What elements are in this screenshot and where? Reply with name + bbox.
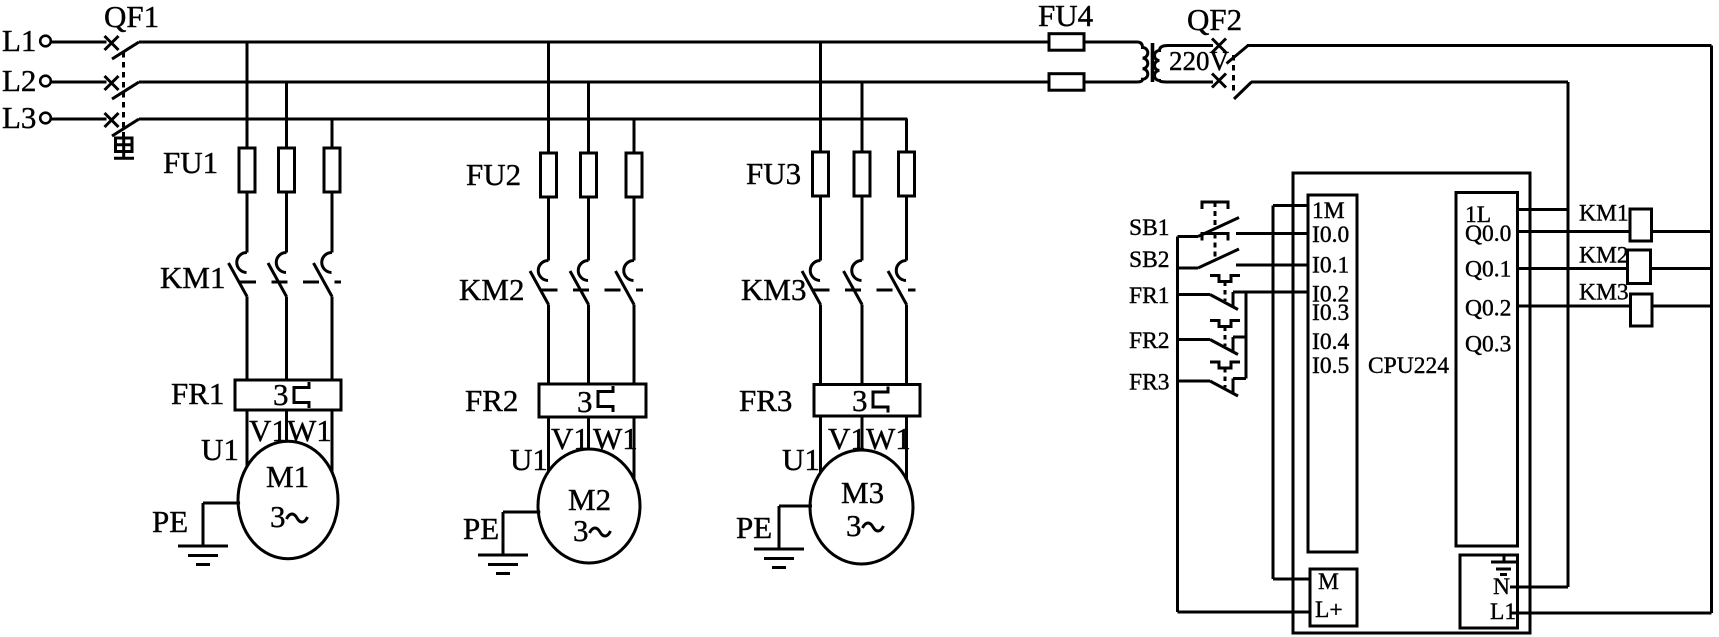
coil KM1 (1630, 209, 1652, 241)
wire FR1 pole 2 to motor (285, 410, 288, 443)
contactor KM2 pole 2 arc (578, 260, 588, 280)
svg-text:Q0.3: Q0.3 (1465, 332, 1511, 358)
wire KM3 pole 1 to FR3 (819, 305, 822, 385)
svg-text:PE: PE (463, 511, 499, 546)
wire neutral to 1568 (1251, 81, 1568, 84)
contactor KM3 pole 1 blade (802, 271, 821, 305)
contactor KM3 pole 3 blade (888, 271, 907, 305)
ground motor 1 (178, 545, 228, 548)
wire Q0.0 to KM1 coil (1518, 230, 1712, 233)
svg-text:M2: M2 (568, 482, 611, 517)
QF1 operator stem (122, 152, 125, 158)
thermal contact FR2 riser (1232, 337, 1235, 353)
wire phase top to right edge (1247, 44, 1712, 47)
svg-text:PE: PE (736, 510, 772, 545)
contactor KM3 pole 2 arc (852, 260, 862, 280)
thermal contact FR2 blade (1210, 340, 1238, 355)
svg-text:FR1: FR1 (1129, 283, 1170, 309)
svg-text:3: 3 (577, 384, 593, 419)
thermal contact FR2 stem dashed (1224, 327, 1227, 347)
wire L1 to QF1 (51, 41, 107, 44)
svg-text:M1: M1 (266, 459, 309, 494)
thermal contact FR1 left lead (1178, 293, 1211, 296)
thermal contact FR3 heater symbol (1210, 362, 1240, 368)
wire N to neutral (1510, 586, 1568, 589)
svg-text:U1: U1 (782, 442, 820, 477)
fuse FU4 lower (1049, 74, 1084, 91)
svg-text:KM2: KM2 (1579, 243, 1629, 269)
svg-text:FU3: FU3 (746, 156, 801, 191)
fuse FU2 pole 2 (581, 153, 597, 197)
svg-text:3: 3 (270, 499, 286, 534)
contactor KM2 linkage dashes (542, 289, 644, 292)
svg-text:Q0.0: Q0.0 (1465, 221, 1511, 247)
QF1 pole 3 X mark (105, 113, 119, 127)
bus L2 wire (139, 81, 1137, 84)
svg-text:CPU224: CPU224 (1368, 353, 1449, 379)
contactor KM2 pole 1 arc (538, 260, 548, 280)
wire FR2 jog (1233, 336, 1246, 339)
fuse FU2 pole 1 (541, 153, 557, 197)
wire SB2 to I0.1 (1236, 264, 1308, 267)
contactor KM1 pole 1 blade (229, 263, 248, 297)
PLC output column (1456, 193, 1518, 547)
thermal contact FR1 blade (1210, 295, 1238, 310)
wire Q0.1 to KM2 coil (1518, 267, 1712, 270)
wire 1M to M vertical (1272, 206, 1275, 580)
thermal contact FR2 left lead (1178, 338, 1211, 341)
thermal contact FR1 heater symbol (1210, 276, 1240, 282)
wire branch1 phase2 drop (285, 82, 288, 253)
contactor KM3 pole 3 arc (896, 260, 906, 280)
contactor KM1 linkage dashes (240, 281, 341, 284)
wire L1 to phase (1510, 612, 1712, 615)
thermal contact FR3 stem dashed (1224, 368, 1227, 388)
QF2 upper pole blade (1227, 46, 1249, 64)
wire KM2 pole 2 to FR2 (587, 305, 590, 385)
wire branch2 phase1 drop (547, 42, 550, 261)
wire branch1 phase3 drop (331, 119, 334, 253)
pushbutton SB1 left lead (1178, 235, 1199, 238)
pushbutton SB2 stem dashed (1214, 234, 1217, 261)
svg-text:FR1: FR1 (171, 376, 224, 411)
terminal L1 circle (40, 36, 51, 47)
fuse FU1 pole 2 (279, 148, 295, 192)
wire FR1 to I0.2 (1233, 291, 1308, 294)
terminal L2 circle (40, 76, 51, 87)
svg-text:1M: 1M (1312, 198, 1345, 224)
svg-text:KM3: KM3 (1579, 280, 1629, 306)
svg-text:FR3: FR3 (1129, 370, 1170, 396)
thermal relay FR1 heater symbol (294, 382, 309, 408)
svg-text:KM3: KM3 (741, 272, 806, 307)
wire FR3 pole 3 to motor (905, 416, 908, 481)
svg-text:3: 3 (852, 383, 868, 418)
pushbutton SB2 blade (1198, 249, 1239, 268)
svg-text:L+: L+ (1315, 597, 1343, 623)
QF1 pole 2 blade (112, 82, 139, 99)
svg-text:I0.0: I0.0 (1312, 222, 1349, 248)
wire 1568 vertical (1567, 82, 1570, 587)
wire FR1 pole 3 to motor (331, 410, 334, 474)
ground motor 3 (754, 548, 804, 551)
svg-text:L2: L2 (2, 63, 36, 98)
wire KM2 pole 1 to FR2 (547, 305, 550, 385)
svg-text:3: 3 (573, 513, 589, 548)
QF1 pole 1 blade (112, 42, 139, 59)
wire FR3 jog (1233, 377, 1246, 380)
svg-text:3: 3 (846, 508, 862, 543)
svg-text:QF1: QF1 (104, 0, 159, 34)
fuse FU1 pole 1 (239, 148, 255, 192)
wire branch2 phase2 drop (587, 82, 590, 261)
PLC outer box (1293, 173, 1530, 633)
QF2 linkage dashed (1232, 55, 1235, 95)
wire L2 to QF1 (51, 81, 107, 84)
wire KM3 pole 2 to FR3 (861, 305, 864, 385)
thermal contact FR2 heater symbol (1210, 321, 1240, 327)
motor M2 circle (538, 449, 640, 563)
contactor KM1 pole 3 blade (314, 263, 333, 297)
QF2 lower pole blade (1234, 82, 1252, 99)
wire right edge vertical (1710, 46, 1713, 614)
svg-text:L3: L3 (2, 100, 36, 135)
svg-text:U1: U1 (510, 442, 548, 477)
contactor KM1 pole 2 arc (276, 252, 286, 272)
thermal relay FR3 heater symbol (873, 387, 888, 413)
svg-text:Q0.2: Q0.2 (1465, 296, 1511, 322)
svg-text:FR2: FR2 (1129, 328, 1170, 354)
contactor KM2 pole 3 arc (624, 260, 634, 280)
QF2 lower pole X mark (1212, 74, 1226, 88)
wire M terminal (1273, 578, 1310, 581)
pushbutton SB1 cap (1202, 202, 1228, 209)
motor M1 circle (238, 441, 338, 558)
wire FR2 pole 1 to motor (547, 417, 550, 473)
wire PE motor 2 (503, 511, 540, 514)
transformer core (1151, 43, 1155, 82)
wire input common vertical (1176, 237, 1179, 613)
thermal contact FR1 stem dashed (1224, 282, 1227, 302)
wire KM1 pole 1 to FR1 (246, 297, 249, 381)
wire KM3 pole 3 to FR3 (905, 305, 908, 385)
contactor KM1 pole 3 arc (322, 252, 332, 272)
svg-text:FR2: FR2 (465, 383, 518, 418)
QF1 operator box (116, 138, 133, 152)
contactor KM3 linkage dashes (814, 289, 916, 292)
wire KM1 pole 3 to FR1 (331, 297, 334, 381)
wire FR2 pole 3 to motor (633, 417, 636, 481)
svg-text:SB1: SB1 (1129, 215, 1170, 241)
wire Q0.2 to KM3 coil (1518, 305, 1712, 308)
wire FR3 pole 2 to motor (861, 416, 864, 452)
fuse FU4 upper (1049, 34, 1084, 51)
motor M3 circle (810, 450, 913, 564)
wire FR2 pole 2 to motor (587, 417, 590, 451)
thermal relay FR2 box (539, 384, 646, 417)
fuse FU1 pole 3 (324, 148, 340, 192)
svg-text:I0.1: I0.1 (1312, 253, 1349, 279)
svg-text:I0.3: I0.3 (1312, 300, 1349, 326)
fuse FU3 pole 1 (813, 152, 829, 196)
wire FR3 pole 1 to motor (819, 416, 822, 475)
contactor KM2 pole 1 blade (530, 271, 549, 305)
contactor KM2 pole 2 blade (570, 271, 589, 305)
wire SB1 to I0.0 (1236, 232, 1308, 235)
ground in N box (1503, 555, 1506, 562)
contactor KM3 pole 1 arc (810, 260, 820, 280)
wire branch3 phase1 drop (819, 42, 822, 261)
contactor KM1 pole 2 blade (268, 263, 287, 297)
transformer secondary winding (1155, 46, 1214, 83)
wire FR parallel vertical (1245, 292, 1248, 379)
wire branch3 phase2 drop (861, 82, 864, 261)
bus L3 wire (139, 118, 908, 121)
fuse FU2 pole 3 (626, 153, 642, 197)
PLC supply N L1 box (1460, 555, 1518, 628)
svg-text:220V: 220V (1169, 46, 1230, 76)
QF1 operator bar (114, 157, 134, 160)
svg-text:I0.5: I0.5 (1312, 353, 1349, 379)
coil KM2 (1628, 250, 1651, 284)
svg-text:QF2: QF2 (1187, 2, 1242, 37)
svg-text:L1: L1 (2, 23, 36, 58)
thermal relay FR2 heater symbol (598, 386, 613, 412)
fuse FU3 pole 3 (899, 152, 915, 196)
contactor KM1 pole 1 arc (237, 252, 247, 272)
contactor KM2 pole 3 blade (616, 271, 635, 305)
wire branch1 phase1 drop (246, 42, 249, 253)
QF2 upper pole X mark (1212, 39, 1226, 53)
wire PE motor 1 (203, 502, 240, 505)
svg-text:N: N (1493, 574, 1510, 600)
svg-text:PE: PE (152, 504, 188, 539)
svg-text:I0.4: I0.4 (1312, 329, 1349, 355)
wire branch2 phase3 drop (633, 119, 636, 261)
svg-text:Q0.1: Q0.1 (1465, 257, 1511, 283)
wire 1L terminal (1518, 208, 1569, 211)
svg-text:FU1: FU1 (163, 145, 218, 180)
svg-text:SB2: SB2 (1129, 247, 1170, 273)
transformer primary winding (1137, 42, 1148, 82)
svg-text:KM2: KM2 (459, 272, 524, 307)
pushbutton SB1 stem dashed (1214, 202, 1217, 229)
QF1 linkage dashed (122, 52, 125, 138)
thermal contact FR3 blade (1210, 381, 1238, 396)
thermal contact FR3 left lead (1178, 380, 1211, 383)
QF1 pole 1 X mark (105, 36, 119, 50)
wire L+ terminal (1178, 611, 1311, 614)
svg-text:3: 3 (273, 377, 289, 412)
svg-text:FU2: FU2 (466, 157, 521, 192)
ground motor 2 (478, 554, 528, 557)
pushbutton SB1 blade (1198, 218, 1239, 237)
wire KM2 pole 3 to FR2 (633, 305, 636, 385)
pushbutton SB2 left lead (1178, 267, 1199, 270)
wire branch3 phase3 drop (905, 119, 908, 261)
wire FR1 pole 1 to motor (246, 410, 249, 468)
svg-text:M: M (1318, 569, 1339, 595)
QF1 pole 2 X mark (105, 76, 119, 90)
thermal relay FR1 box (235, 380, 341, 410)
bus L1 wire (139, 41, 1137, 44)
svg-text:KM1: KM1 (1579, 201, 1629, 227)
PLC input column (1308, 195, 1357, 552)
wire KM1 pole 2 to FR1 (285, 297, 288, 381)
wire 1M terminal (1273, 204, 1308, 207)
terminal L3 circle (40, 113, 51, 124)
wire PE motor 3 (779, 505, 812, 508)
pushbutton SB2 cap (1202, 234, 1228, 241)
thermal contact FR3 riser (1232, 379, 1235, 395)
PLC supply M L+ box (1310, 569, 1357, 626)
svg-text:U1: U1 (201, 432, 239, 467)
svg-text:KM1: KM1 (160, 260, 225, 295)
svg-text:FR3: FR3 (739, 383, 792, 418)
contactor KM3 pole 2 blade (844, 271, 863, 305)
thermal contact FR1 riser (1232, 292, 1235, 308)
svg-text:M3: M3 (841, 475, 884, 510)
QF1 pole 3 blade (112, 119, 139, 136)
fuse FU3 pole 2 (854, 152, 870, 196)
thermal relay FR3 box (814, 385, 920, 417)
wire L3 to QF1 (51, 118, 107, 121)
coil KM3 (1631, 294, 1653, 326)
svg-text:FU4: FU4 (1038, 0, 1094, 33)
